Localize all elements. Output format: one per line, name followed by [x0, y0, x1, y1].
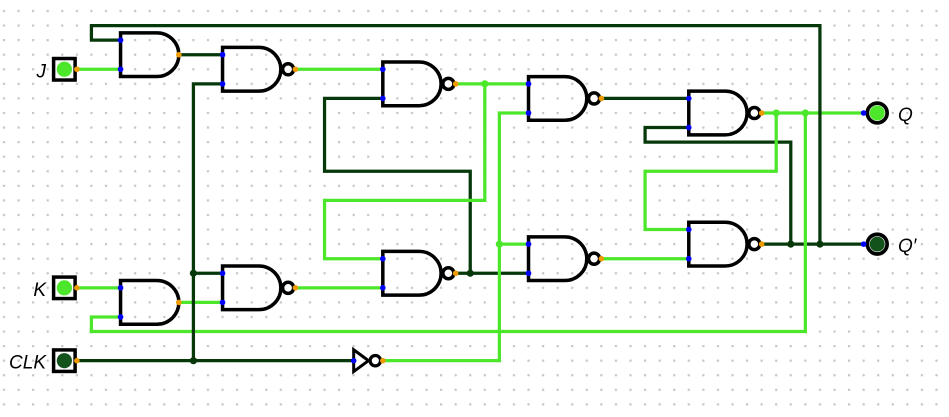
- nand-gate U9: [529, 237, 600, 281]
- junction inverted clock riser / U9 branch: [496, 241, 503, 248]
- nand-gate U2: [223, 47, 294, 91]
- wire U2 output to U3 input A (high): [295, 68, 382, 71]
- input port dot 5: [380, 66, 386, 72]
- wire Q feedback to U10 input A (high): [645, 113, 776, 230]
- nand-gate U5: [689, 91, 760, 135]
- output port dot 13: [74, 285, 80, 291]
- output port dot 4: [599, 96, 605, 102]
- junction CLK line / riser: [190, 357, 197, 364]
- output port dot 12: [74, 66, 80, 72]
- input port dot 3: [220, 52, 226, 58]
- wire pin K to U6 input A (high): [77, 286, 121, 289]
- wire U1 output to U2 input A (low): [179, 53, 223, 56]
- input port dot 6: [380, 96, 386, 102]
- input port dot 12: [118, 314, 124, 320]
- wire pin J to U1 input B (high): [77, 68, 121, 71]
- junction Q line / long feedback riser: [802, 109, 809, 116]
- output port dot 10: [759, 241, 765, 247]
- junction U3 output / feedback riser: [481, 80, 488, 87]
- output port dot 1: [176, 52, 182, 58]
- wire U3 output to U4 input A (high): [456, 82, 529, 85]
- input port dot 7: [526, 81, 532, 87]
- output port dot 2: [293, 66, 299, 72]
- wire U5 output to pin Q (high): [762, 111, 864, 114]
- input port dot 23: [861, 241, 867, 247]
- junction CLK riser / U7 branch: [190, 270, 197, 277]
- nand-gate U7: [223, 266, 294, 310]
- svg-text:Q′: Q′: [898, 236, 918, 257]
- input port dot 9: [686, 96, 692, 102]
- wire U10 output to pin Q-prime (low): [762, 242, 864, 245]
- input port dot 21: [351, 358, 357, 364]
- input port dot 15: [380, 256, 386, 262]
- input pin K (high): [54, 277, 76, 299]
- input port dot 4: [220, 81, 226, 87]
- wire Q feedback vertical riser (high): [804, 113, 807, 332]
- wire CLK branch to U7 input A (low): [193, 272, 222, 275]
- junction Q-prime line / U5 feedback riser: [787, 241, 794, 248]
- input pin CLK (low): [54, 350, 76, 372]
- svg-text:CLK: CLK: [9, 353, 47, 374]
- output pin Q-prime (low): [867, 234, 887, 254]
- input port dot 8: [526, 110, 532, 116]
- wire CLK pin to inverter U11 input (low): [77, 359, 354, 362]
- nand-gate U4: [529, 77, 600, 121]
- wire Q feedback long horizontal run (high): [91, 330, 805, 333]
- and-gate U6: [121, 281, 179, 325]
- input port dot 2: [118, 66, 124, 72]
- input port dot 22: [861, 110, 867, 116]
- inverter U11 (clock): [354, 350, 381, 372]
- nand-gate U3: [383, 62, 454, 106]
- input port dot 16: [380, 285, 386, 291]
- output pin Q (high): [867, 103, 887, 123]
- and-gate U1: [121, 33, 179, 77]
- wire U8 output to U9 input B (low): [456, 272, 529, 275]
- input pin J (high): [54, 59, 76, 81]
- output port dot 6: [176, 300, 182, 306]
- input port dot 10: [686, 125, 692, 131]
- wire U6 output to U7 input B (high): [179, 301, 223, 304]
- wire Q feedback to U6 input B (high): [91, 317, 120, 332]
- wire Q-prime feedback to U5 input B (low): [645, 128, 791, 245]
- wire U9 output to U10 input B (high): [601, 257, 688, 260]
- junction Q-prime line / U1 feedback riser: [816, 241, 823, 248]
- wire U7 output to U8 input B (high): [295, 286, 382, 289]
- output port dot 8: [453, 270, 459, 276]
- nand-gate U10: [689, 222, 760, 266]
- junction Q line / U10 feedback riser: [773, 109, 780, 116]
- wire U3 output feedback to U8 input A (high): [325, 84, 485, 259]
- input port dot 17: [526, 241, 532, 247]
- svg-text:J: J: [36, 61, 47, 82]
- input port dot 18: [526, 270, 532, 276]
- input port dot 20: [686, 256, 692, 262]
- wire Q-prime feedback to U1 input A (low): [91, 26, 820, 245]
- wire inverter U11 output to U4 input B (high): [383, 113, 529, 361]
- input port dot 11: [118, 285, 124, 291]
- svg-text:Q: Q: [898, 105, 913, 126]
- output port dot 5: [759, 110, 765, 116]
- output port dot 7: [293, 285, 299, 291]
- junction U8 output / feedback riser: [467, 270, 474, 277]
- output port dot 3: [453, 81, 459, 87]
- input port dot 13: [220, 270, 226, 276]
- wire U4 output to U5 input A (low): [601, 97, 688, 100]
- nand-gate U8: [383, 251, 454, 295]
- input port dot 19: [686, 227, 692, 233]
- input port dot 1: [118, 37, 124, 43]
- wire U8 output feedback to U3 input B (low): [325, 98, 471, 273]
- wire CLK vertical riser to U2 input B (low): [193, 84, 222, 361]
- wire inverted clock branch to U9 input A (high): [499, 242, 528, 245]
- input port dot 14: [220, 300, 226, 306]
- output port dot 9: [599, 256, 605, 262]
- output port dot 14: [74, 358, 80, 364]
- svg-text:K: K: [33, 280, 47, 301]
- output port dot 11: [380, 358, 386, 364]
